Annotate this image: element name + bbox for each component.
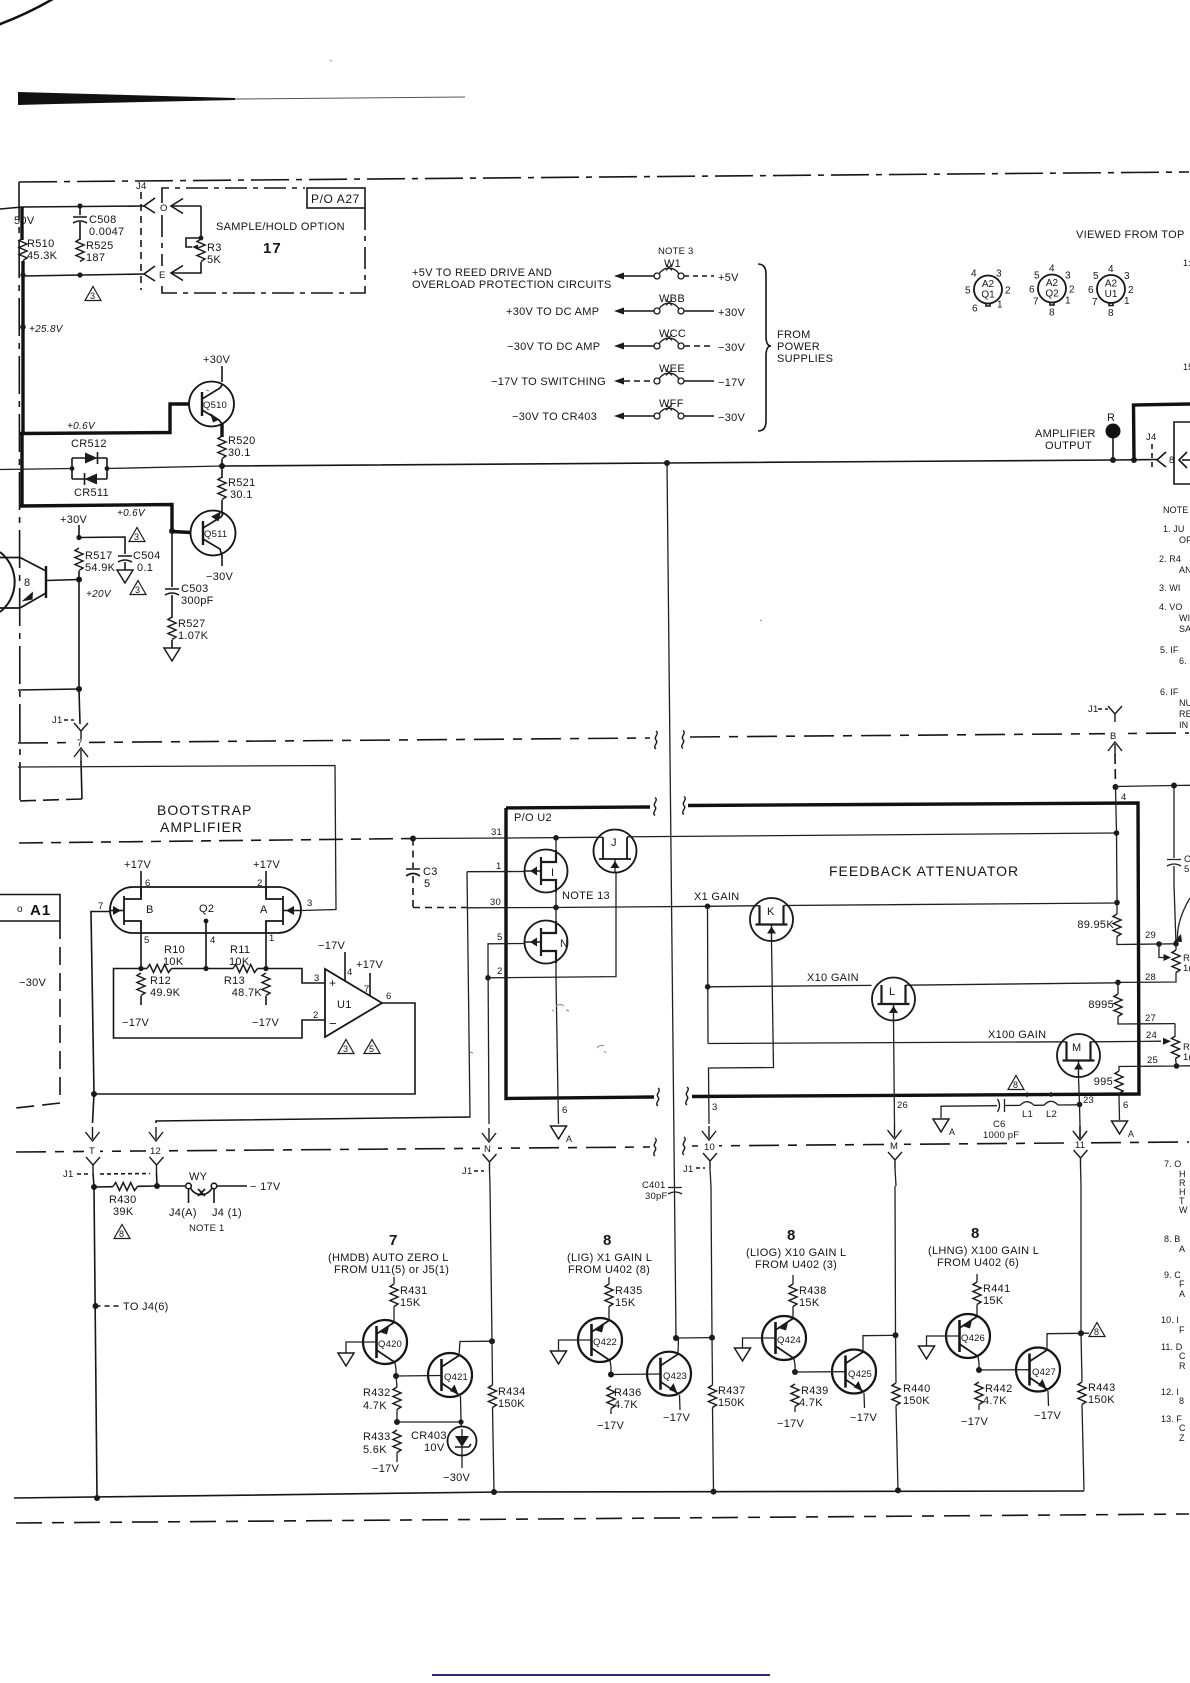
svg-text:3: 3 bbox=[134, 532, 139, 542]
wire: J1-7 exit left (dashed) bbox=[18, 799, 82, 801]
svg-text:B: B bbox=[1110, 731, 1117, 742]
svg-text:6: 6 bbox=[1029, 285, 1035, 296]
svg-text:R: R bbox=[1107, 412, 1115, 424]
wire: Q423 collector up to node on long vertical bbox=[677, 1338, 680, 1354]
svg-text:15K: 15K bbox=[799, 1297, 820, 1309]
SECTION:BOOTSTRAP bbox=[0, 766, 470, 1502]
capacitor C5 on right-edge vertical bbox=[1167, 786, 1181, 944]
transistor Q420 bbox=[363, 1320, 407, 1364]
svg-text:K: K bbox=[767, 906, 775, 918]
wire: Q425 emitter bbox=[863, 1393, 866, 1408]
node dots bbox=[77, 203, 82, 208]
svg-text:AMPLIFIER: AMPLIFIER bbox=[1035, 428, 1096, 440]
svg-text:7: 7 bbox=[364, 984, 369, 995]
svg-text:− 17V: − 17V bbox=[250, 1181, 281, 1193]
svg-text:VIEWED FROM TOP: VIEWED FROM TOP bbox=[1076, 229, 1185, 241]
svg-text:1: 1 bbox=[997, 300, 1003, 311]
svg-text:Q2: Q2 bbox=[199, 903, 214, 915]
svg-text:J1: J1 bbox=[63, 1169, 73, 1180]
svg-text:R442: R442 bbox=[985, 1383, 1013, 1395]
wire: Q510 emitter to R520 bbox=[220, 424, 223, 437]
wire: long vertical joins group2 node bbox=[673, 1335, 679, 1341]
svg-text:NOTE: NOTE bbox=[1163, 505, 1188, 515]
capacitor C3 bbox=[410, 836, 416, 842]
svg-text:50V: 50V bbox=[14, 215, 35, 227]
svg-text:1.07K: 1.07K bbox=[178, 630, 209, 642]
svg-text:−17V: −17V bbox=[961, 1416, 989, 1428]
svg-text:−30V TO CR403: −30V TO CR403 bbox=[512, 411, 597, 423]
svg-text:12: 12 bbox=[150, 1146, 161, 1157]
svg-text:FROM U402 (6): FROM U402 (6) bbox=[937, 1257, 1019, 1269]
svg-text:M: M bbox=[890, 1141, 898, 1152]
wire: pin6 / ground A bbox=[556, 977, 558, 1098]
wire: long vertical from output bus bbox=[664, 460, 670, 466]
svg-text:R441: R441 bbox=[983, 1283, 1011, 1295]
svg-text:R12: R12 bbox=[150, 975, 171, 987]
wire: Q427 emitter bbox=[1047, 1391, 1050, 1406]
svg-text:R436: R436 bbox=[614, 1387, 642, 1399]
svg-text:+30V TO DC AMP: +30V TO DC AMP bbox=[506, 306, 599, 318]
svg-text:−17V: −17V bbox=[777, 1418, 805, 1430]
transistor Q427 bbox=[1016, 1348, 1060, 1392]
wire: L gate down bbox=[894, 1021, 895, 1126]
svg-text:C503: C503 bbox=[181, 583, 209, 595]
svg-text:−: − bbox=[329, 1016, 337, 1031]
svg-text:R13: R13 bbox=[224, 975, 245, 987]
svg-text:+: + bbox=[329, 976, 336, 990]
wire: left vertical conductor bbox=[22, 207, 23, 505]
ground at Q422 base bbox=[559, 1340, 592, 1351]
svg-text:L1: L1 bbox=[1022, 1109, 1033, 1120]
svg-text:Q426: Q426 bbox=[961, 1333, 985, 1344]
wire: Q427 collector up to node bbox=[1047, 1333, 1081, 1350]
wire: to R3 bbox=[200, 206, 202, 238]
connector dashed line y~1147 bbox=[16, 1147, 650, 1152]
svg-text:2: 2 bbox=[313, 1010, 318, 1021]
label gaps bbox=[72, 725, 1122, 1158]
wire: bottom rail of divider bbox=[22, 274, 144, 276]
svg-text:300pF: 300pF bbox=[181, 595, 214, 607]
svg-text:3: 3 bbox=[1065, 271, 1071, 282]
note triangle 8 bbox=[114, 1225, 130, 1239]
note triangle 3 bbox=[130, 581, 146, 595]
svg-text:A: A bbox=[1128, 1129, 1134, 1139]
resistor R438 bbox=[792, 1275, 794, 1284]
svg-text:+20V: +20V bbox=[86, 589, 112, 600]
wire: I drain to 31 node bbox=[555, 838, 557, 850]
note triangle 8 bbox=[1008, 1076, 1024, 1090]
ground under C504 bbox=[117, 570, 133, 583]
svg-text:IN: IN bbox=[1179, 720, 1188, 730]
svg-text:F: F bbox=[1179, 1325, 1185, 1335]
FET J bbox=[594, 830, 637, 873]
wire: +20V vertical down bbox=[79, 571, 80, 724]
svg-text:Q420: Q420 bbox=[378, 1339, 402, 1350]
svg-text:4.7K: 4.7K bbox=[799, 1397, 823, 1409]
sample/hold option box (dash-dot) bbox=[162, 188, 305, 203]
svg-text:A1: A1 bbox=[30, 902, 51, 919]
svg-text:NOTE 3: NOTE 3 bbox=[658, 246, 694, 257]
svg-text:A: A bbox=[566, 1134, 572, 1144]
svg-text:F: F bbox=[1179, 1279, 1185, 1289]
svg-text:T: T bbox=[89, 1146, 95, 1157]
wire: lower thick rail to Q511 bbox=[20, 505, 172, 532]
svg-text:5: 5 bbox=[144, 935, 149, 946]
svg-text:2: 2 bbox=[1128, 285, 1134, 296]
transistor Q423 bbox=[647, 1352, 691, 1396]
svg-text:J: J bbox=[611, 837, 617, 849]
svg-text:A: A bbox=[260, 904, 268, 916]
svg-text:OVERLOAD PROTECTION CIRCUITS: OVERLOAD PROTECTION CIRCUITS bbox=[412, 279, 612, 291]
resistor R432 bbox=[393, 1387, 401, 1410]
svg-text:(LIG) X1 GAIN L: (LIG) X1 GAIN L bbox=[567, 1252, 652, 1264]
svg-text:5: 5 bbox=[1184, 864, 1189, 875]
svg-text:R439: R439 bbox=[801, 1385, 829, 1397]
svg-text:1(: 1( bbox=[1183, 963, 1190, 974]
svg-text:3: 3 bbox=[307, 898, 312, 909]
svg-text:R510: R510 bbox=[27, 238, 55, 250]
svg-text:OF: OF bbox=[1179, 535, 1190, 545]
svg-text:B: B bbox=[146, 904, 154, 916]
svg-text:5K: 5K bbox=[207, 254, 221, 266]
pinout A2 U1 bbox=[1088, 264, 1134, 319]
svg-text:J1: J1 bbox=[52, 715, 62, 726]
resistor R443 bbox=[1078, 1382, 1086, 1405]
svg-text:8: 8 bbox=[603, 1232, 611, 1249]
op-amp U1 bbox=[325, 969, 382, 1037]
svg-text:A: A bbox=[949, 1127, 955, 1137]
svg-text:OUTPUT: OUTPUT bbox=[1045, 440, 1092, 452]
svg-text:R440: R440 bbox=[903, 1383, 931, 1395]
svg-text:Q424: Q424 bbox=[777, 1335, 801, 1346]
resistor R430 bbox=[91, 1184, 97, 1190]
svg-text:1: 1 bbox=[269, 933, 274, 944]
svg-text:I: I bbox=[551, 867, 554, 879]
zener diode CR403 bbox=[460, 1422, 463, 1427]
svg-text:R: R bbox=[1179, 1361, 1186, 1371]
svg-text:M: M bbox=[1072, 1042, 1081, 1054]
svg-text:15K: 15K bbox=[400, 1297, 421, 1309]
resistor R520 bbox=[218, 436, 226, 459]
svg-text:23: 23 bbox=[1083, 1095, 1094, 1106]
pinout A2 Q1 bbox=[965, 269, 1011, 315]
svg-text:U1: U1 bbox=[1105, 289, 1118, 300]
SECTION:TOPLEFT bbox=[0, 181, 365, 505]
svg-text:150K: 150K bbox=[903, 1395, 930, 1407]
svg-text:15: 15 bbox=[1183, 362, 1190, 372]
svg-text:7: 7 bbox=[389, 1232, 397, 1249]
svg-text:POWER: POWER bbox=[777, 341, 820, 353]
Q2 right half internals bbox=[266, 887, 283, 933]
wire: Q425 collector up to node bbox=[863, 1335, 896, 1352]
svg-text:L2: L2 bbox=[1046, 1109, 1057, 1120]
svg-text:R437: R437 bbox=[718, 1385, 746, 1397]
svg-text:−17V: −17V bbox=[718, 377, 746, 389]
svg-text:8: 8 bbox=[1094, 1327, 1099, 1337]
transistor Q421 bbox=[428, 1353, 472, 1397]
note triangle 5 bbox=[364, 1040, 380, 1054]
svg-text:10K: 10K bbox=[229, 956, 250, 968]
svg-text:+30V: +30V bbox=[718, 307, 746, 319]
svg-text:26: 26 bbox=[897, 1100, 908, 1111]
svg-text:R438: R438 bbox=[799, 1285, 827, 1297]
wire: pins down to resistor rail bbox=[141, 933, 266, 969]
svg-text:J1: J1 bbox=[462, 1166, 472, 1177]
svg-text:3: 3 bbox=[996, 269, 1002, 280]
svg-text:CR511: CR511 bbox=[74, 487, 109, 499]
svg-text:O: O bbox=[160, 203, 168, 214]
svg-text:−30V: −30V bbox=[206, 571, 234, 583]
svg-text:SUPPLIES: SUPPLIES bbox=[777, 353, 833, 365]
svg-text:R432: R432 bbox=[363, 1387, 391, 1399]
svg-text:39K: 39K bbox=[113, 1206, 134, 1218]
Q2 center pin 4 bbox=[205, 921, 207, 933]
transistor Q422 bbox=[578, 1318, 622, 1362]
box P/O U2 + feedback attenuator (heavy, with breaks over vertical) bbox=[506, 807, 650, 808]
left dash-dot border bbox=[19, 182, 20, 800]
svg-text:+30V: +30V bbox=[203, 354, 231, 366]
wire: Q510 base bbox=[20, 404, 189, 434]
svg-text:7: 7 bbox=[1033, 297, 1039, 308]
svg-text:(LHNG) X100 GAIN L: (LHNG) X100 GAIN L bbox=[928, 1245, 1039, 1257]
svg-text:−17V: −17V bbox=[252, 1017, 280, 1029]
connector J1 pin 12 bbox=[156, 1117, 470, 1123]
svg-text:3: 3 bbox=[343, 1044, 348, 1054]
svg-text:1: 1 bbox=[1124, 296, 1130, 307]
svg-text:8: 8 bbox=[787, 1227, 795, 1244]
svg-text:−17V: −17V bbox=[372, 1463, 400, 1475]
svg-text:R527: R527 bbox=[178, 618, 206, 630]
wire: +50V rail top-left bbox=[0, 206, 144, 209]
resistor R527 bbox=[168, 617, 176, 640]
svg-text:+0.6V: +0.6V bbox=[117, 508, 146, 519]
svg-text:FROM U11(5) or J5(1): FROM U11(5) or J5(1) bbox=[334, 1264, 449, 1276]
svg-text:5: 5 bbox=[1034, 271, 1040, 282]
wire: A1 border dashed down bbox=[16, 921, 60, 1108]
svg-text:WY: WY bbox=[189, 1171, 208, 1183]
svg-text:995: 995 bbox=[1094, 1076, 1113, 1088]
svg-text:8: 8 bbox=[1179, 1396, 1184, 1406]
svg-text:−30V: −30V bbox=[443, 1472, 471, 1484]
wire: pin1 into I gate bbox=[467, 871, 524, 873]
resistor R12 bbox=[137, 973, 145, 996]
svg-text:48.7K: 48.7K bbox=[232, 987, 263, 999]
svg-text:6: 6 bbox=[972, 304, 978, 315]
svg-text:3: 3 bbox=[135, 585, 140, 595]
resistor R440 bbox=[892, 1383, 900, 1406]
top dash-dot border bbox=[19, 172, 1189, 182]
pinout A2 Q2 bbox=[1029, 264, 1075, 319]
resistor R434 bbox=[490, 1187, 493, 1385]
svg-text:1:: 1: bbox=[1183, 258, 1190, 268]
ground at Q420 base bbox=[346, 1342, 377, 1353]
svg-text:4: 4 bbox=[971, 269, 977, 280]
SECTION:OUTPUT bbox=[222, 404, 1190, 1338]
svg-text:Q425: Q425 bbox=[848, 1369, 872, 1380]
svg-text:−30V: −30V bbox=[19, 977, 47, 989]
transistor Q426 bbox=[946, 1314, 990, 1358]
svg-text:R11: R11 bbox=[230, 944, 250, 956]
svg-text:150K: 150K bbox=[718, 1397, 745, 1409]
svg-text:15K: 15K bbox=[615, 1297, 636, 1309]
wire: heavy corner to off-page box bbox=[1134, 404, 1190, 460]
node: output junction bbox=[219, 463, 225, 469]
svg-text:2. R4: 2. R4 bbox=[1159, 554, 1181, 564]
svg-text:J1: J1 bbox=[683, 1164, 693, 1175]
wire: Q511 emitter to R521 bbox=[221, 510, 223, 514]
wire: 30 line continues as X1 GAIN bbox=[568, 906, 708, 907]
scan smudges bbox=[206, 60, 762, 1053]
svg-text:FROM U402 (8): FROM U402 (8) bbox=[568, 1264, 650, 1276]
wire: staircase vertical from X1 node bbox=[707, 906, 710, 1043]
capacitor C504 bbox=[79, 537, 132, 570]
svg-text:1. JU: 1. JU bbox=[1163, 524, 1185, 534]
svg-text:C504: C504 bbox=[133, 550, 161, 562]
diode CR511 bbox=[85, 474, 98, 485]
svg-text:R10: R10 bbox=[164, 944, 185, 956]
svg-text:54.9K: 54.9K bbox=[85, 562, 116, 574]
svg-text:R435: R435 bbox=[615, 1285, 643, 1297]
svg-text:27: 27 bbox=[1145, 1013, 1156, 1024]
svg-text:7. O: 7. O bbox=[1164, 1159, 1181, 1169]
break marks (bottom) bbox=[657, 1088, 660, 1106]
stub TO J4(6) bbox=[96, 1305, 120, 1307]
svg-text:Q2: Q2 bbox=[1045, 289, 1059, 300]
wire: Q421 emitter to CR403 bbox=[460, 1396, 463, 1422]
wire: main amplifier output bus bbox=[222, 460, 1157, 467]
svg-text:−30V TO DC AMP: −30V TO DC AMP bbox=[507, 341, 600, 353]
svg-text:8: 8 bbox=[1013, 1080, 1018, 1090]
svg-text:U1: U1 bbox=[337, 999, 352, 1011]
svg-text:X10 GAIN: X10 GAIN bbox=[807, 972, 859, 984]
svg-text:5: 5 bbox=[369, 1044, 374, 1054]
svg-text:+5V: +5V bbox=[718, 272, 739, 284]
svg-text:+25.8V: +25.8V bbox=[29, 324, 64, 335]
svg-text:1: 1 bbox=[496, 861, 501, 872]
svg-text:R430: R430 bbox=[109, 1194, 137, 1206]
resistor R510 bbox=[19, 238, 27, 261]
wire: y785 line to right edge bbox=[1116, 785, 1190, 786]
svg-text:3: 3 bbox=[1124, 271, 1130, 282]
svg-text:15K: 15K bbox=[983, 1295, 1004, 1307]
svg-text:N: N bbox=[484, 1144, 491, 1155]
svg-text:−17V: −17V bbox=[122, 1017, 150, 1029]
svg-text:E: E bbox=[159, 270, 166, 281]
svg-text:W: W bbox=[1179, 1205, 1188, 1215]
svg-text:8: 8 bbox=[1108, 308, 1114, 319]
ground at Q426 base bbox=[927, 1336, 960, 1346]
svg-text:J4: J4 bbox=[1146, 432, 1156, 443]
FET M bbox=[1057, 1034, 1100, 1077]
svg-text:FEEDBACK ATTENUATOR: FEEDBACK ATTENUATOR bbox=[829, 863, 1019, 879]
svg-text:25: 25 bbox=[1147, 1055, 1158, 1066]
svg-text:L: L bbox=[889, 986, 895, 998]
svg-text:(HMDB) AUTO ZERO L: (HMDB) AUTO ZERO L bbox=[328, 1252, 449, 1264]
svg-text:2: 2 bbox=[1005, 286, 1011, 297]
potentiometer R3 bbox=[199, 236, 204, 241]
svg-text:5: 5 bbox=[965, 286, 971, 297]
svg-text:3: 3 bbox=[712, 1102, 717, 1113]
svg-text:R434: R434 bbox=[498, 1386, 526, 1398]
svg-text:Q421: Q421 bbox=[444, 1372, 468, 1383]
svg-text:4. VO: 4. VO bbox=[1159, 602, 1183, 612]
svg-text:30.1: 30.1 bbox=[228, 447, 251, 459]
svg-text:R521: R521 bbox=[228, 477, 256, 489]
transistor Q510 bbox=[189, 382, 234, 427]
svg-text:−17V TO SWITCHING: −17V TO SWITCHING bbox=[491, 376, 606, 388]
svg-text:C3: C3 bbox=[423, 866, 438, 878]
svg-text:8. B: 8. B bbox=[1164, 1234, 1180, 1244]
resistor 995 bbox=[1115, 1071, 1123, 1094]
SECTION:U2 bbox=[413, 797, 1139, 1188]
svg-text:8: 8 bbox=[24, 577, 30, 589]
svg-text:3: 3 bbox=[90, 291, 95, 301]
svg-text:6.: 6. bbox=[1179, 656, 1187, 666]
wire: diode pair taps bbox=[70, 466, 75, 471]
svg-text:+0.6V: +0.6V bbox=[67, 421, 96, 432]
connector J1 pin 11 bbox=[1073, 1126, 1087, 1140]
wire: Q424 collector to node bbox=[794, 1359, 795, 1373]
wire: N connector vertical bbox=[488, 958, 489, 1124]
net 25 bbox=[1119, 1059, 1177, 1072]
svg-text:CR512: CR512 bbox=[71, 438, 107, 450]
svg-text:4.7K: 4.7K bbox=[983, 1395, 1007, 1407]
bottom rail bbox=[14, 1491, 1084, 1498]
resistor R435 bbox=[608, 1277, 610, 1284]
svg-text:+17V: +17V bbox=[124, 859, 152, 871]
svg-text:5: 5 bbox=[497, 932, 502, 943]
svg-text:−30V: −30V bbox=[718, 342, 746, 354]
svg-text:187: 187 bbox=[86, 252, 105, 264]
resistor R436 bbox=[607, 1386, 615, 1409]
svg-text:FROM: FROM bbox=[777, 329, 811, 341]
svg-text:+30V: +30V bbox=[60, 514, 88, 526]
svg-text:TO J4(6): TO J4(6) bbox=[123, 1301, 169, 1313]
svg-text:R3: R3 bbox=[207, 242, 222, 254]
resistor 8995 bbox=[1117, 982, 1119, 994]
P/O A27 label box bbox=[307, 188, 365, 208]
svg-text:+17V: +17V bbox=[253, 859, 281, 871]
svg-text:R520: R520 bbox=[228, 435, 256, 447]
corner scan arc bbox=[0, 0, 58, 26]
svg-text:o: o bbox=[17, 904, 23, 915]
transistor Q511 bbox=[191, 511, 236, 557]
svg-text:4.7K: 4.7K bbox=[363, 1400, 387, 1412]
wire: N drain up to 30 line bbox=[555, 908, 557, 922]
svg-text:R517: R517 bbox=[85, 550, 113, 562]
wire: stub left at y689 bbox=[18, 689, 79, 690]
svg-text:C401: C401 bbox=[642, 1180, 666, 1191]
dual JFET Q2 capsule bbox=[110, 887, 301, 933]
transistor Q424 bbox=[762, 1316, 806, 1360]
wire: pin5 into N gate bbox=[488, 944, 524, 959]
note triangle 8 bbox=[1089, 1323, 1105, 1337]
svg-text:7: 7 bbox=[1092, 297, 1098, 308]
svg-text:49.9K: 49.9K bbox=[150, 987, 181, 999]
svg-text:4: 4 bbox=[1049, 264, 1055, 275]
note triangle 3 bbox=[338, 1040, 354, 1054]
J4 pin O bracket bbox=[144, 198, 155, 213]
svg-text:4: 4 bbox=[1121, 792, 1126, 803]
J4 pin E arrow bbox=[171, 266, 183, 281]
transistor Q425 bbox=[832, 1350, 876, 1394]
wire: Q426 collector to node bbox=[978, 1357, 979, 1371]
svg-text:1: 1 bbox=[1065, 296, 1071, 307]
svg-text:8995: 8995 bbox=[1088, 999, 1114, 1011]
svg-text:5: 5 bbox=[1093, 271, 1099, 282]
wire: Q511 collector to -30V bbox=[221, 555, 223, 566]
svg-text:0.1: 0.1 bbox=[137, 562, 153, 574]
